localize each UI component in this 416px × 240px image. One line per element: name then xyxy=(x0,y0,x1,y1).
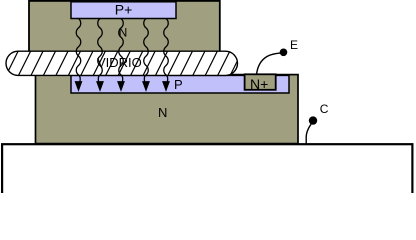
terminal E dot xyxy=(280,49,288,57)
svg-text:N+: N+ xyxy=(250,76,268,92)
svg-text:N: N xyxy=(119,25,128,39)
upper olive block (top N region) xyxy=(29,1,220,64)
N collector region (lower olive block) xyxy=(36,75,299,144)
light ray 2 xyxy=(97,19,103,91)
terminal E wire xyxy=(257,53,281,74)
svg-text:P: P xyxy=(174,77,183,92)
P base region bar xyxy=(71,75,289,93)
svg-text:C: C xyxy=(320,102,329,116)
svg-text:P+: P+ xyxy=(115,1,133,17)
svg-text:E: E xyxy=(290,38,298,52)
P+ region bar (top) xyxy=(71,2,176,19)
substrate (bottom white slab, collector contact region) xyxy=(2,144,412,200)
svg-text:N: N xyxy=(158,105,167,120)
light ray 1 (wavy arrow) xyxy=(76,19,82,91)
N+ emitter region box xyxy=(245,74,276,90)
terminal C dot xyxy=(309,116,317,124)
terminal C wire xyxy=(306,124,311,143)
vidrio glass layer (hatched stadium) xyxy=(0,50,243,76)
light ray 4 xyxy=(143,19,149,91)
light ray 3 xyxy=(118,19,124,91)
light ray 5 xyxy=(163,19,169,91)
